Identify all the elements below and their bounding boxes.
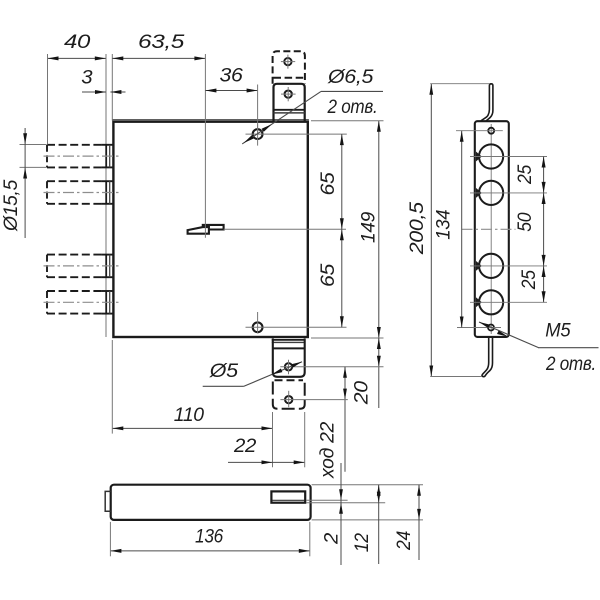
dim 136 left extension <box>109 522 111 556</box>
dia 15,5 extension lines <box>20 144 47 146</box>
latch follower lower bar <box>188 227 209 234</box>
svg-text:24: 24 <box>393 531 415 551</box>
dim 149 top extension <box>311 120 384 122</box>
dim 20 extension <box>296 366 383 368</box>
dim 20 arrows <box>377 338 381 349</box>
bottom tab slot line B <box>272 341 305 343</box>
dim 22 arrows <box>262 460 273 464</box>
bolt hole circle S4 <box>479 290 503 314</box>
dim hod22 arrows <box>343 367 347 378</box>
dia 5 leader diagonal <box>244 362 302 387</box>
dim 2 arrows <box>339 489 343 500</box>
bolt hole S4 detent notch <box>476 297 482 307</box>
top tab extended position bottom edge (dashed) <box>274 77 305 79</box>
dim 110 arrows <box>112 426 123 430</box>
dim 65 lower arrows <box>340 229 344 240</box>
top tab hole retracted pos <box>285 90 292 97</box>
body screw hole H2 (dia 6.5, bottom) <box>253 322 263 332</box>
bottom tab hole retracted pos (dia 5) <box>285 363 292 370</box>
bv extension tab bottom <box>306 502 385 504</box>
bolt hole circle S3 <box>479 254 503 278</box>
dimension 40 line <box>48 57 106 59</box>
side small hole top (M5) <box>488 128 494 134</box>
body top cover thin edge line <box>112 119 309 121</box>
deadbolt B1 centerline <box>44 155 120 157</box>
svg-text:ход 22: ход 22 <box>316 422 338 479</box>
dia 15,5 arrows <box>23 133 27 144</box>
side small hole bottom (M5) <box>488 325 494 331</box>
bolt hole circle S2 <box>479 181 503 205</box>
dimension 24 line <box>418 485 420 560</box>
bv extension top edge <box>312 484 423 486</box>
svg-text:136: 136 <box>195 526 223 548</box>
faceplate edge-on outer face line <box>105 54 107 337</box>
dim 40 extension line <box>47 54 49 145</box>
deadbolt B4 hidden outline (dashed) <box>47 291 105 314</box>
hole H2 vertical centerline <box>257 312 259 334</box>
M5 leader arrows <box>479 322 490 328</box>
svg-text:200,5: 200,5 <box>406 202 428 256</box>
dim 63,5 extension line <box>204 54 206 238</box>
dim chain 25/50/25 line <box>543 157 545 303</box>
dimension 36 line <box>205 90 257 92</box>
extension line above body left edge <box>111 54 113 121</box>
dimension hod 22 line <box>344 367 346 472</box>
dim 36 arrows <box>205 89 216 93</box>
dim 36 extension line <box>257 85 259 134</box>
svg-text:36: 36 <box>220 65 243 87</box>
bolt hole S1 detent notch <box>476 152 482 162</box>
dia 5 leader shelf <box>203 385 244 387</box>
bottom tab hole extended pos <box>285 396 292 403</box>
side mid dash-dot centerline <box>462 228 516 230</box>
svg-text:2 отв.: 2 отв. <box>327 96 378 118</box>
dim 136 arrows <box>110 549 121 553</box>
dimension 200,5 line <box>430 84 432 377</box>
svg-text:25: 25 <box>518 270 540 290</box>
dim 3 arrows <box>95 90 106 94</box>
dimension 110 line <box>112 427 272 429</box>
dim 110 right extension <box>272 412 274 467</box>
bolt hole S1 centerline <box>470 156 547 158</box>
svg-text:20: 20 <box>351 381 373 406</box>
svg-text:Ø6,5: Ø6,5 <box>327 66 374 88</box>
top tab hole ext crosshair <box>281 55 295 69</box>
svg-text:149: 149 <box>358 212 380 243</box>
deadbolt B1 faceplate collar <box>101 145 112 168</box>
faceplate plate (side view) <box>475 121 509 337</box>
dim 200,5 top extension <box>430 83 489 85</box>
dim hod22 extension <box>297 399 348 401</box>
bottom view strip body <box>111 485 311 520</box>
top tab slot line B <box>274 112 305 114</box>
body screw hole H1 (dia 6.5, top) <box>253 129 263 139</box>
dimension 20 line <box>378 338 380 408</box>
dim 136 right extension <box>309 522 311 556</box>
dia 6,5 leader diagonal <box>242 91 321 143</box>
dim 134 arrows <box>460 131 464 142</box>
top tab hole extended pos <box>284 58 291 65</box>
bottom tab hole crosshair <box>280 360 296 374</box>
latch follower upper bar <box>203 225 224 230</box>
dim 24 arrows <box>417 485 421 496</box>
side hole top centerline <box>456 130 503 132</box>
top flange (bent lug) <box>481 84 493 121</box>
deadbolt B2 hidden outline (dashed) <box>47 181 105 204</box>
hole H1 horizontal centerline <box>246 133 347 135</box>
dim 63,5 arrows <box>112 56 123 60</box>
dim 40 arrows <box>48 56 59 60</box>
svg-text:50: 50 <box>514 212 536 231</box>
bottom view faceplate bump <box>105 491 111 511</box>
dia 15,5 dim line <box>24 128 26 238</box>
dia 6,5 leader arrows <box>244 135 254 143</box>
dimension 2 line <box>340 463 342 565</box>
svg-text:12: 12 <box>351 533 373 552</box>
svg-text:110: 110 <box>174 404 204 426</box>
dim 110 left extension <box>111 340 113 434</box>
dimension 65 upper line <box>341 134 343 229</box>
dim 149 bottom extension <box>311 337 384 339</box>
hole H1 vertical centerline <box>257 124 259 145</box>
deadbolt B4 centerline <box>44 301 120 303</box>
dimension 63,5 line <box>112 57 205 59</box>
deadbolt B4 faceplate collar <box>101 291 112 314</box>
dim 22 right extension <box>304 412 306 467</box>
svg-text:134: 134 <box>433 209 455 239</box>
bottom tab slot line A <box>272 339 305 341</box>
deadbolt B3 faceplate collar <box>101 255 112 278</box>
svg-text:2: 2 <box>321 533 343 546</box>
dim chain arrows <box>542 157 546 168</box>
dimension 3 tails <box>82 91 106 93</box>
svg-text:22: 22 <box>233 435 257 457</box>
svg-text:63,5: 63,5 <box>138 31 185 53</box>
lock body (front view) <box>113 122 307 337</box>
svg-text:40: 40 <box>64 31 91 53</box>
deadbolt B1 hidden outline (dashed) <box>47 145 105 168</box>
bottom tab retracted position (solid) <box>273 339 305 377</box>
bolt hole S3 centerline <box>470 265 547 267</box>
bottom tab extended position (dashed) <box>273 382 305 409</box>
dia 5 leader arrows <box>272 369 283 375</box>
deadbolt B3 centerline <box>44 265 120 267</box>
bolt hole S4 centerline <box>470 301 547 303</box>
bolt hole S2 centerline <box>470 192 547 194</box>
dimension 12 line <box>378 485 380 564</box>
side hole bottom centerline <box>457 327 501 329</box>
bottom tab plate top edge <box>273 347 305 349</box>
dim 200,5 bottom extension <box>430 376 482 378</box>
bolt hole S2 detent notch <box>476 188 482 198</box>
dimension 149 line <box>378 121 380 338</box>
hole H2 horizontal centerline <box>246 326 347 328</box>
dia 6,5 leader shelf <box>321 90 383 92</box>
dimension 134 line <box>461 131 463 328</box>
dimension 136 line <box>110 550 309 552</box>
dimension 65 lower line <box>341 229 343 327</box>
svg-text:3: 3 <box>81 67 92 89</box>
dim 65 upper arrows <box>340 134 344 145</box>
M5 leader diagonal <box>479 322 539 348</box>
svg-text:65: 65 <box>317 264 339 287</box>
deadbolt B2 faceplate collar <box>101 181 112 204</box>
bv extension bottom edge <box>312 519 423 521</box>
faceplate vertical centerline <box>490 124 492 334</box>
svg-text:Ø15,5: Ø15,5 <box>0 180 22 232</box>
deadbolt B2 centerline <box>44 192 120 194</box>
bv extension tab inner <box>306 499 348 501</box>
bottom tab hole ext crosshair <box>280 391 296 407</box>
top tab hole crosshair <box>281 87 296 101</box>
svg-text:Ø5: Ø5 <box>209 360 239 382</box>
svg-text:М5: М5 <box>545 319 570 341</box>
dim 200,5 arrows <box>429 84 433 95</box>
dim 12 arrows <box>377 485 381 496</box>
bottom view slide tab inner line <box>272 499 304 501</box>
latch horizontal centerline <box>224 228 346 230</box>
bolt hole S3 detent notch <box>476 261 482 271</box>
deadbolt B3 hidden outline (dashed) <box>47 255 105 278</box>
dimension 22 line <box>228 461 305 463</box>
top tab retracted position (solid) <box>274 84 305 121</box>
bottom flange (bent lug) <box>482 337 493 377</box>
dim 149 arrows <box>377 121 381 132</box>
bolt hole circle S1 <box>479 144 503 168</box>
svg-text:25: 25 <box>514 165 536 185</box>
svg-text:65: 65 <box>317 172 339 195</box>
bottom tab extended position top edge (dashed) <box>275 379 304 381</box>
M5 leader shelf <box>538 347 599 349</box>
bottom view slide tab rect <box>271 491 305 502</box>
top tab slot line A <box>274 109 305 111</box>
svg-text:2 отв.: 2 отв. <box>545 353 596 375</box>
top tab extended position (dashed) <box>273 51 305 84</box>
